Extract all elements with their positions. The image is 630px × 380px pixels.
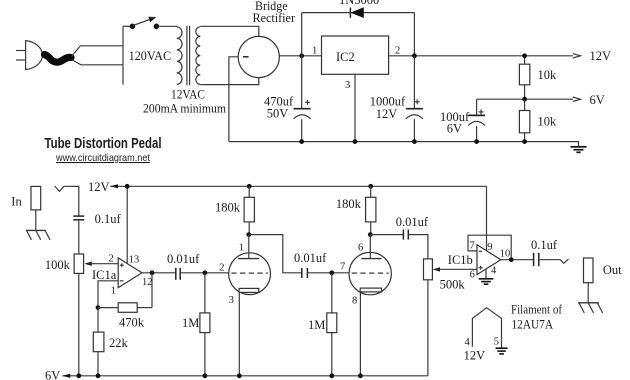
svg-text:200mA minimum: 200mA minimum bbox=[143, 102, 226, 116]
wire: C6 to V2 grid bbox=[307, 272, 349, 274]
svg-text:1M: 1M bbox=[308, 318, 325, 332]
wire: pin4 to ground bbox=[485, 269, 487, 279]
Out jack J2 bbox=[584, 258, 594, 283]
svg-text:7: 7 bbox=[340, 262, 345, 273]
svg-text:10k: 10k bbox=[538, 115, 558, 129]
capacitor C3 100uf bbox=[440, 99, 485, 141]
wire: wiper to IC1b pin6 bbox=[436, 268, 477, 270]
svg-text:3: 3 bbox=[229, 295, 234, 306]
wire: jack sleeve down bbox=[587, 283, 589, 303]
wire: C8 to tip contact bbox=[539, 259, 561, 261]
svg-text:1: 1 bbox=[312, 45, 317, 56]
svg-text:2: 2 bbox=[395, 45, 400, 56]
wire: wiper to IC1a pin2 bbox=[88, 263, 118, 265]
wire: to switch bbox=[123, 25, 132, 27]
node: pin1 junction bbox=[299, 53, 304, 58]
capacitor C1 470uf bbox=[264, 56, 311, 142]
svg-text:www.circuitdiagram.net: www.circuitdiagram.net bbox=[55, 152, 150, 164]
svg-text:13: 13 bbox=[129, 255, 140, 266]
svg-text:9: 9 bbox=[487, 242, 492, 253]
wire: pin2 junction up bbox=[413, 13, 415, 56]
svg-text:10k: 10k bbox=[538, 68, 558, 82]
tube V1 12AU7A section 1 bbox=[219, 235, 270, 376]
svg-text:0.01uf: 0.01uf bbox=[294, 251, 327, 265]
svg-text:0.01uf: 0.01uf bbox=[167, 252, 200, 266]
node: V2 grid junction bbox=[329, 270, 334, 275]
svg-text:1N5000: 1N5000 bbox=[339, 0, 379, 7]
svg-text:10: 10 bbox=[500, 248, 511, 259]
node: 6V rail dots bbox=[76, 373, 81, 378]
capacitor C6 0.01uf bbox=[294, 251, 327, 278]
wire: IC2 pin2 to 12V bbox=[389, 55, 573, 57]
capacitor C4 0.1uf bbox=[73, 212, 121, 226]
svg-text:IC1b: IC1b bbox=[448, 253, 473, 267]
node: 12V rail bbox=[522, 53, 527, 58]
node: V1 plate junction bbox=[246, 232, 251, 237]
wire: 12V rail down to pin9 bbox=[486, 186, 488, 251]
transformer T1 bbox=[177, 26, 201, 85]
12V arrow bbox=[573, 54, 581, 58]
wire: 6V line bbox=[477, 98, 573, 100]
wire: IC1a output bbox=[142, 272, 176, 274]
svg-text:12V: 12V bbox=[376, 107, 398, 121]
capacitor C2 1000uf bbox=[370, 56, 423, 142]
6V rail (bottom) bbox=[45, 369, 428, 380]
svg-text:7: 7 bbox=[470, 240, 475, 251]
svg-text:180k: 180k bbox=[336, 197, 362, 211]
wire: IC2 pin3 down bbox=[354, 74, 356, 141]
svg-text:Filament of: Filament of bbox=[511, 303, 563, 317]
svg-text:0.01uf: 0.01uf bbox=[396, 215, 429, 229]
filament of 12AU7A bbox=[464, 308, 502, 363]
AC plug P1 bbox=[16, 41, 123, 70]
svg-text:6V: 6V bbox=[45, 369, 60, 380]
wire: output down to feedback bbox=[151, 273, 153, 308]
wire: pot bottom to 6V rail bbox=[427, 280, 429, 376]
node: output junction bbox=[150, 270, 155, 275]
node: rail dots bbox=[125, 184, 130, 189]
svg-text:2: 2 bbox=[109, 254, 114, 265]
wire: IC1a pin13 to 12V rail bbox=[126, 186, 128, 263]
resistor R7 1M bbox=[308, 273, 337, 376]
svg-text:2: 2 bbox=[219, 263, 224, 274]
svg-text:22k: 22k bbox=[109, 336, 129, 350]
resistor R2 10k bbox=[519, 99, 557, 141]
ground (filament) bbox=[496, 348, 508, 354]
diode D1 1N5000 bbox=[339, 0, 379, 18]
svg-text:6: 6 bbox=[358, 243, 363, 254]
wire: switch to transformer bbox=[156, 25, 177, 27]
svg-text:0.1uf: 0.1uf bbox=[531, 238, 558, 252]
svg-text:Out: Out bbox=[603, 263, 622, 277]
svg-text:50V: 50V bbox=[267, 106, 289, 120]
resistor R6 180k bbox=[215, 186, 254, 234]
svg-text:6: 6 bbox=[470, 270, 475, 281]
svg-text:470k: 470k bbox=[119, 315, 145, 329]
chassis ground (input) bbox=[26, 230, 50, 239]
wire: secondary top to bridge bbox=[200, 26, 258, 36]
wire: IC1b output bbox=[501, 259, 534, 261]
svg-text:Rectifier: Rectifier bbox=[253, 11, 296, 25]
svg-text:1: 1 bbox=[111, 285, 116, 296]
ground (IC1b) bbox=[479, 279, 494, 284]
In jack J1 bbox=[31, 186, 41, 210]
svg-text:100k: 100k bbox=[45, 258, 71, 272]
svg-text:5: 5 bbox=[494, 337, 499, 348]
node: V2 plate junction bbox=[368, 232, 373, 237]
resistor R4 22k bbox=[93, 308, 128, 376]
tip contact (input) bbox=[55, 186, 64, 191]
wire: pot bottom to 6V rail bbox=[78, 273, 80, 375]
wire: junction up to diode line bbox=[301, 13, 303, 56]
resistor R8 180k bbox=[336, 186, 376, 234]
op-amp IC1b bbox=[448, 240, 511, 280]
capacitor C7 0.01uf bbox=[396, 215, 429, 240]
node: feedback junction bbox=[96, 305, 101, 310]
wire: tip to C4 bbox=[64, 186, 79, 216]
wire: ground rail bbox=[229, 142, 579, 147]
chassis ground (output) bbox=[578, 303, 603, 313]
6V arrow bbox=[573, 97, 581, 101]
wire: C7 to 500k pot bbox=[408, 235, 428, 259]
svg-text:12AU7A: 12AU7A bbox=[512, 317, 554, 331]
node: 6V rail bbox=[522, 97, 527, 102]
svg-text:IC2: IC2 bbox=[336, 50, 355, 64]
resistor R1 10k bbox=[519, 56, 557, 99]
svg-text:180k: 180k bbox=[215, 201, 241, 215]
op-amp IC1a bbox=[92, 254, 153, 297]
node: grid junction bbox=[203, 270, 208, 275]
wire: bridge plus to IC2 pin1 bbox=[279, 55, 321, 57]
svg-text:1M: 1M bbox=[182, 316, 199, 330]
wire: V2 plate to C7 bbox=[370, 234, 403, 236]
wire: C4 to pot bbox=[78, 220, 80, 254]
svg-text:IC1a: IC1a bbox=[92, 268, 117, 282]
IC2 regulator bbox=[312, 36, 400, 91]
potentiometer VR2 500k bbox=[424, 259, 466, 292]
svg-text:6V: 6V bbox=[590, 93, 605, 107]
svg-text:4: 4 bbox=[465, 337, 471, 348]
resistor R5 1M bbox=[182, 273, 210, 376]
node: pin2 junction bbox=[412, 53, 417, 58]
wire: jack sleeve to ground bbox=[35, 210, 37, 231]
svg-text:Tube Distortion Pedal: Tube Distortion Pedal bbox=[45, 135, 162, 152]
wire: primary left vertical bbox=[122, 26, 124, 84]
wire: V1 plate to C6 bbox=[249, 235, 302, 273]
tip contact (output) bbox=[560, 259, 568, 263]
svg-text:12V: 12V bbox=[590, 49, 612, 63]
svg-text:500k: 500k bbox=[440, 278, 466, 292]
wire: IC1a pin1 input bbox=[98, 281, 118, 308]
svg-text:3: 3 bbox=[345, 80, 350, 91]
node: output junction bbox=[509, 257, 514, 262]
resistor R3 470k bbox=[98, 303, 152, 330]
capacitor C8 0.1uf bbox=[531, 238, 558, 266]
svg-text:12V: 12V bbox=[88, 180, 110, 194]
wire: bridge minus down to ground rail bbox=[229, 57, 238, 142]
node: rail junctions bbox=[299, 139, 304, 144]
svg-text:0.1uf: 0.1uf bbox=[95, 212, 122, 226]
tube V2 12AU7A section 2 bbox=[340, 235, 391, 376]
wire: feedback loop pin7 bbox=[468, 235, 511, 260]
svg-text:12VAC: 12VAC bbox=[171, 88, 205, 102]
switch S1 bbox=[130, 17, 160, 29]
capacitor C5 0.01uf bbox=[167, 252, 200, 280]
svg-text:12: 12 bbox=[142, 277, 153, 288]
svg-text:12V: 12V bbox=[464, 349, 486, 363]
svg-text:6V: 6V bbox=[447, 122, 462, 136]
svg-text:1: 1 bbox=[239, 243, 244, 254]
svg-text:In: In bbox=[11, 195, 22, 209]
bridge rectifier BR1 bbox=[238, 36, 279, 77]
svg-text:8: 8 bbox=[352, 295, 357, 306]
ground (top section) bbox=[571, 147, 587, 153]
wire: C5 to grid V1 bbox=[180, 272, 229, 274]
potentiometer VR1 100k bbox=[45, 254, 92, 273]
svg-text:120VAC: 120VAC bbox=[129, 49, 172, 63]
wire: top diode wire bbox=[302, 12, 415, 14]
12V rail (bottom) bbox=[88, 180, 487, 194]
wire: secondary bottom to bridge bbox=[200, 78, 258, 85]
svg-text:4: 4 bbox=[491, 266, 497, 277]
